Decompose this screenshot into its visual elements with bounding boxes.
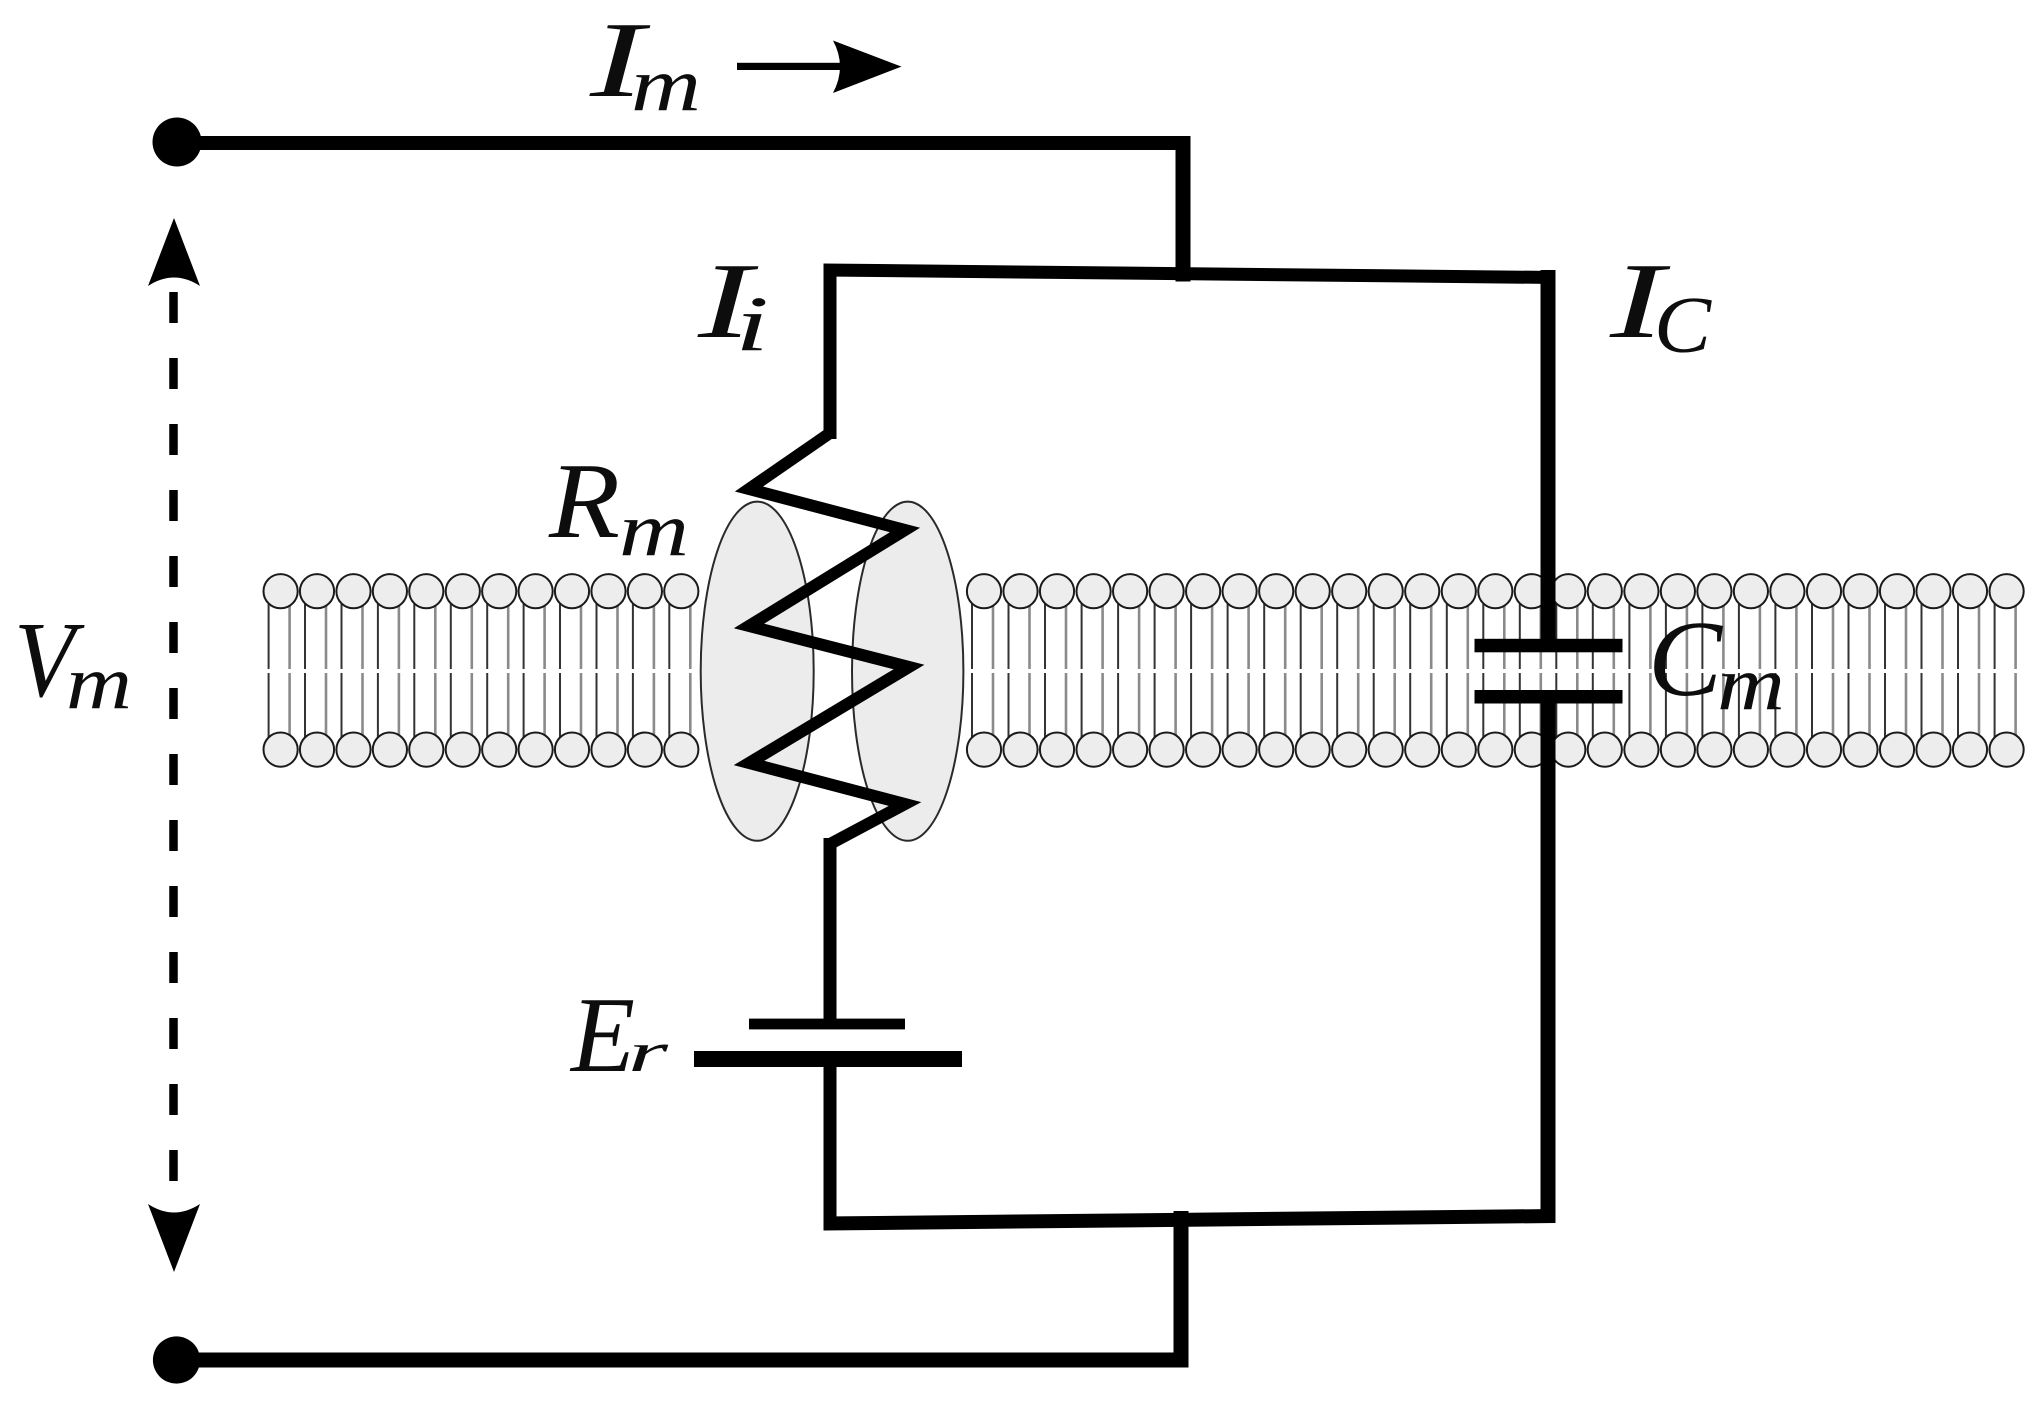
Vm arrowhead down xyxy=(148,1204,200,1272)
node: top-left terminal dot xyxy=(153,118,202,167)
capacitor Cm bottom plate xyxy=(1475,690,1623,704)
ion channel protein right ellipse xyxy=(852,502,963,841)
svg-text:m: m xyxy=(66,641,132,725)
wire: right branch upper vertical (IC) xyxy=(1541,270,1556,652)
svg-text:R: R xyxy=(548,442,620,561)
svg-text:i: i xyxy=(735,280,769,367)
wire: left branch vertical (Ii) xyxy=(824,264,837,439)
battery Er short plate xyxy=(749,1019,905,1030)
wire: bottom rail between branches xyxy=(824,1209,1555,1231)
lipid bilayer membrane (phospholipid heads and tails) xyxy=(264,574,2024,767)
wire: bottom-mid vertical riser xyxy=(1174,1211,1189,1368)
wire: top rail between branches xyxy=(824,264,1556,285)
svg-text:C: C xyxy=(1654,282,1713,370)
Vm arrowhead up xyxy=(148,218,200,286)
Vm measurement dashed line xyxy=(169,292,178,1212)
capacitor Cm top plate xyxy=(1475,639,1623,653)
wire: bottom horizontal xyxy=(176,1353,1189,1368)
wire: battery to bottom rail xyxy=(824,1067,837,1230)
node: bottom-left terminal dot xyxy=(153,1336,200,1383)
battery Er long plate xyxy=(694,1051,962,1067)
Im arrowhead right xyxy=(833,41,902,94)
wire: top-right vertical drop xyxy=(1176,136,1191,282)
wire: top horizontal (Im) xyxy=(177,136,1191,150)
svg-text:m: m xyxy=(1717,642,1785,726)
ion channel protein left ellipse xyxy=(701,502,814,841)
svg-text:m: m xyxy=(631,43,701,127)
svg-text:E: E xyxy=(569,976,635,1095)
svg-text:r: r xyxy=(628,1022,668,1084)
svg-text:m: m xyxy=(619,488,689,572)
Im arrow shaft xyxy=(737,63,841,70)
wire: right branch lower vertical xyxy=(1541,690,1556,1223)
resistor Rm zigzag xyxy=(749,433,909,844)
wire: resistor to battery lead xyxy=(824,838,837,1024)
svg-text:C: C xyxy=(1648,600,1724,719)
